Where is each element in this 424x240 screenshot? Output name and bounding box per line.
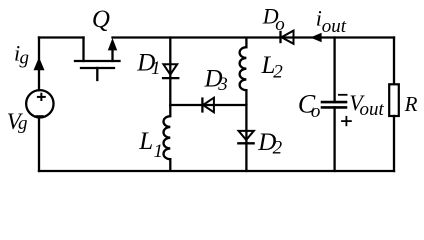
diode Do xyxy=(281,31,294,44)
svg-text:out: out xyxy=(322,16,347,37)
wire: bottom rail xyxy=(39,170,394,172)
svg-text:o: o xyxy=(275,14,285,35)
svg-text:L: L xyxy=(138,128,153,155)
svg-text:g: g xyxy=(20,47,30,68)
MOSFET source arrow xyxy=(108,38,117,50)
svg-text:R: R xyxy=(404,92,418,116)
svg-text:2: 2 xyxy=(273,137,283,158)
wire: left rail upper (ig branch) xyxy=(38,38,40,91)
svg-text:out: out xyxy=(360,99,385,120)
wire: right rail upper (R top lead) xyxy=(393,38,395,84)
wire: left rail lower (Vg to bottom) xyxy=(38,118,40,172)
svg-text:1: 1 xyxy=(154,141,164,162)
capacitor Co polarity plus xyxy=(341,116,352,126)
svg-text:Q: Q xyxy=(92,6,110,33)
svg-text:o: o xyxy=(311,101,321,122)
diode D2 xyxy=(237,131,255,143)
wire: D2 branch vertical (middle rail to bottom rail) xyxy=(245,105,247,171)
voltage source Vg xyxy=(26,90,53,117)
diode D1 xyxy=(162,64,180,78)
resistor R xyxy=(389,84,399,116)
wire: Co branch upper lead xyxy=(333,38,335,103)
capacitor Co xyxy=(321,102,348,107)
wire: D1 branch vertical (top rail to middle rail) xyxy=(169,38,171,106)
transistor Q (MOSFET) xyxy=(75,38,120,81)
svg-text:3: 3 xyxy=(217,74,228,95)
svg-text:g: g xyxy=(18,113,28,134)
svg-text:1: 1 xyxy=(151,58,161,79)
current arrow iout xyxy=(310,33,321,43)
wire: middle rail xyxy=(170,104,246,106)
svg-text:2: 2 xyxy=(273,62,283,83)
diode D3 xyxy=(202,97,214,112)
wire: Co branch lower lead xyxy=(333,107,335,171)
wire: right rail lower (R bottom lead) xyxy=(393,116,395,171)
inductor L1 xyxy=(163,105,170,171)
inductor L2 xyxy=(240,38,247,106)
wire: top rail right segment xyxy=(113,36,395,38)
current arrow ig xyxy=(34,57,45,70)
wire: top rail left segment xyxy=(39,36,84,38)
capacitor Co polarity minus xyxy=(338,94,348,96)
